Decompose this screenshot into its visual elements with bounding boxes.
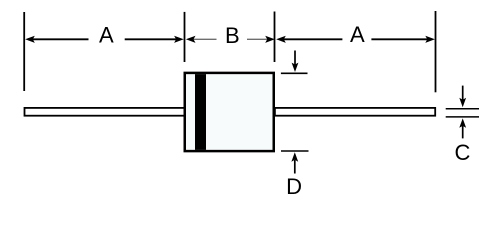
wire right lead <box>275 108 435 116</box>
extension line body right <box>274 12 276 63</box>
wire left lead <box>25 108 186 116</box>
dimension B: line <box>186 36 275 43</box>
extension line right lead end <box>435 11 437 92</box>
svg-text:D: D <box>286 174 302 199</box>
dimension C bottom tick <box>446 116 479 118</box>
extension line body left <box>184 12 186 62</box>
dimension A left: line <box>25 36 184 43</box>
dimension C top arrow (down) <box>459 86 466 108</box>
svg-text:C: C <box>454 140 470 165</box>
dimension D bottom tick <box>281 150 309 152</box>
dimension C top tick <box>446 108 479 110</box>
svg-text:A: A <box>99 22 114 47</box>
svg-text:B: B <box>225 23 240 48</box>
dimension A right: line <box>276 36 435 43</box>
dimension D top tick <box>281 72 308 74</box>
dimension C bottom arrow (up) <box>459 118 466 138</box>
cathode band <box>195 74 206 150</box>
diode body <box>185 73 274 151</box>
dimension D top arrow (down) <box>292 51 299 73</box>
svg-text:A: A <box>350 22 365 47</box>
extension line left lead end <box>23 12 25 91</box>
dimension D bottom arrow (up) <box>291 152 298 173</box>
